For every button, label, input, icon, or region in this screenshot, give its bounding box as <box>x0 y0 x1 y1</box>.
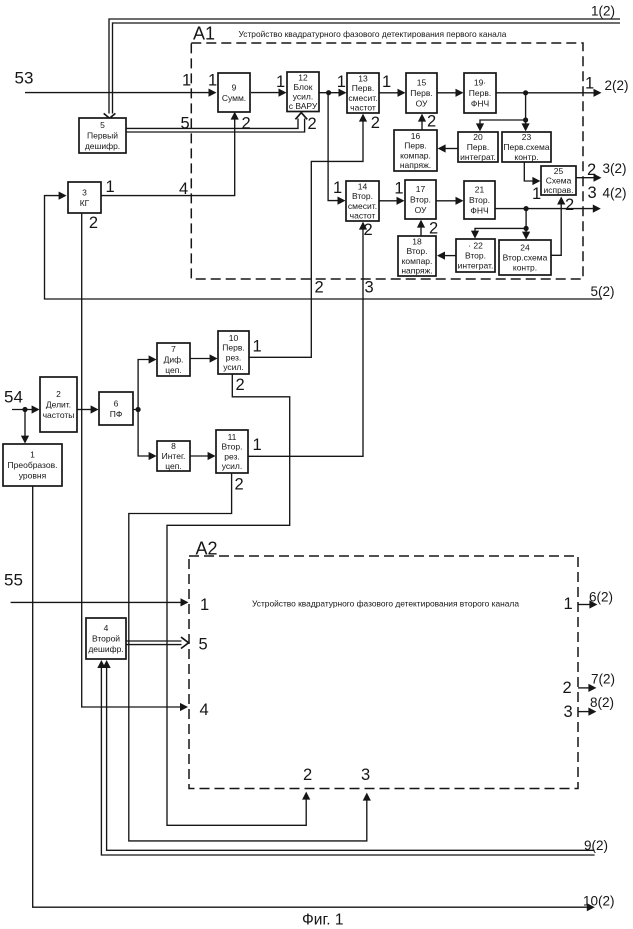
svg-text:КГ: КГ <box>80 198 90 208</box>
svg-text:5: 5 <box>100 120 105 130</box>
svg-text:54: 54 <box>4 388 23 407</box>
block 17 second op-amp <box>405 180 436 219</box>
wire 7 to 10 <box>190 354 218 362</box>
label 1(2) <box>591 4 615 19</box>
svg-text:Фиг. 1: Фиг. 1 <box>302 912 343 929</box>
wire 2 to 6 <box>77 405 99 413</box>
block 23 first control circuit <box>502 132 551 162</box>
pin 1 outside A1 left <box>182 72 191 90</box>
pin 1 output of amplifier 11 <box>253 436 262 454</box>
wire 8 to 11 <box>190 452 216 460</box>
pin 5 outside A1 left <box>181 115 190 133</box>
svg-text:Сумм.: Сумм. <box>222 93 246 103</box>
svg-text:1: 1 <box>208 72 217 90</box>
wire A2 output 3 to 8(2) <box>578 708 596 716</box>
pin 4 A2 left input <box>200 701 209 719</box>
svg-text:3: 3 <box>365 279 374 297</box>
svg-text:2: 2 <box>235 476 244 494</box>
svg-text:рез.: рез. <box>224 451 240 461</box>
svg-text:25: 25 <box>554 166 564 176</box>
svg-text:1: 1 <box>253 338 262 356</box>
svg-text:21: 21 <box>475 185 485 195</box>
svg-text:55: 55 <box>4 571 23 590</box>
svg-text:1: 1 <box>200 596 209 614</box>
svg-text:2: 2 <box>364 221 373 239</box>
svg-text:Втор.: Втор. <box>410 195 431 205</box>
pin 1 input of mixer 13 <box>337 73 346 91</box>
svg-text:интеграт.: интеграт. <box>458 261 494 271</box>
svg-text:2: 2 <box>429 220 438 238</box>
block 21 second low-pass filter <box>464 181 495 219</box>
wire 10 output 2 to A2 bottom input 2 <box>167 374 310 825</box>
wire output 1(2) feedback loop into decoder 5 (double line, hollow arrow) <box>104 19 620 118</box>
svg-text:усил.: усил. <box>222 461 242 471</box>
svg-text:2: 2 <box>427 113 436 131</box>
svg-text:1: 1 <box>585 75 594 93</box>
pin 1 A2 right output <box>564 595 573 613</box>
wire oscillator 3 output 2 to A2 input 4 <box>82 213 188 711</box>
pin 2 A2 right output <box>563 679 572 697</box>
svg-text:9(2): 9(2) <box>584 838 608 853</box>
block 12 amplifier with VARU <box>287 72 319 112</box>
label 9(2) <box>584 838 608 853</box>
wire A2 output 2 to 7(2) <box>578 684 596 692</box>
pin 1 input of op-amp 15 <box>382 73 391 91</box>
pin 3 A2 bottom input <box>361 766 370 784</box>
svg-text:14: 14 <box>358 182 368 192</box>
svg-text:10: 10 <box>229 333 239 343</box>
pin 2 input of mixer 13 <box>371 114 380 132</box>
svg-text:2: 2 <box>563 679 572 697</box>
pin 2 input of summer 9 <box>242 115 251 133</box>
svg-text:3: 3 <box>564 703 573 721</box>
label 7(2) <box>591 672 615 687</box>
svg-text:компар.: компар. <box>400 150 431 160</box>
wire 17 to 21 <box>436 197 464 205</box>
block 10 first resonant amplifier <box>218 331 249 374</box>
pin 3 A1 bottom input <box>365 279 374 297</box>
svg-text:уровня: уровня <box>19 471 47 481</box>
wire 20 to 16 <box>438 144 458 152</box>
svg-text:2: 2 <box>242 115 251 133</box>
svg-text:2: 2 <box>236 376 245 394</box>
label 8(2) <box>590 695 614 710</box>
svg-text:2: 2 <box>587 161 596 179</box>
svg-text:1: 1 <box>564 595 573 613</box>
wire 13 to 15 <box>378 89 406 97</box>
wire input 55 to A2 input 1 <box>11 598 189 606</box>
svg-text:24: 24 <box>520 242 530 252</box>
svg-text:Втор.: Втор. <box>221 442 242 452</box>
block 25 correction circuit <box>541 166 576 195</box>
pin 5 A2 left input <box>199 636 208 654</box>
svg-text:1: 1 <box>532 185 541 203</box>
svg-text:6: 6 <box>114 398 119 408</box>
svg-text:17: 17 <box>416 184 426 194</box>
svg-text:усил.: усил. <box>223 362 243 372</box>
pin 1 input of circuit 25 <box>532 185 541 203</box>
block 24 second control circuit <box>499 240 551 275</box>
pin 2 input of mixer 14 <box>364 221 373 239</box>
svg-text:Втор.: Втор. <box>469 195 490 205</box>
svg-text:с ВАРУ: с ВАРУ <box>289 101 318 111</box>
svg-text:11: 11 <box>228 432 237 442</box>
pin 1 input of op-amp 17 <box>394 180 403 198</box>
pin 2 input of block 12 <box>308 115 317 133</box>
svg-text:3: 3 <box>361 766 370 784</box>
svg-text:4: 4 <box>104 623 109 633</box>
svg-text:ФНЧ: ФНЧ <box>471 99 489 109</box>
block 20 first integrator <box>458 132 498 162</box>
svg-text:13: 13 <box>358 74 368 84</box>
wire 18 up to 17 input 2 <box>417 220 425 236</box>
pin 1 output of oscillator 3 <box>106 178 115 196</box>
wire 5(2) feedback into oscillator 3 <box>45 192 603 300</box>
svg-text:10(2): 10(2) <box>583 894 615 909</box>
wire junction after 6 to 7 and 8 <box>133 355 157 460</box>
block 6 bandpass filter PF <box>99 392 133 425</box>
wire 11 output 1 to mixer 14 input 2 <box>248 222 367 457</box>
svg-text:1: 1 <box>394 180 403 198</box>
svg-text:цеп.: цеп. <box>165 461 181 471</box>
svg-text:интеграт.: интеграт. <box>460 152 496 162</box>
svg-text:1: 1 <box>382 73 391 91</box>
svg-text:1: 1 <box>276 73 285 91</box>
wire 15 to 19 <box>437 89 464 97</box>
svg-text:Перв.: Перв. <box>222 343 244 353</box>
svg-text:1: 1 <box>30 450 35 460</box>
wire branch from node after 21 down to 22 and 24 <box>471 209 530 240</box>
pin 2 input of op-amp 17 <box>429 220 438 238</box>
block 13 first frequency mixer <box>347 73 379 113</box>
label A1 <box>193 24 215 44</box>
svg-text:18: 18 <box>412 237 422 247</box>
svg-text:смесит.: смесит. <box>348 93 377 103</box>
svg-text:5: 5 <box>181 115 190 133</box>
block 3 oscillator KG <box>68 182 101 213</box>
svg-text:· 22: · 22 <box>468 240 483 250</box>
label 55 <box>4 571 23 590</box>
pin 3 A2 right output <box>564 703 573 721</box>
svg-text:Диф.: Диф. <box>164 355 184 365</box>
svg-text:2: 2 <box>89 214 98 232</box>
svg-text:15: 15 <box>417 78 427 88</box>
svg-text:5: 5 <box>199 636 208 654</box>
block 7 differentiating circuit <box>157 343 190 376</box>
block 16 first voltage comparator <box>394 130 437 171</box>
svg-text:частоты: частоты <box>43 410 75 420</box>
wire 24 to 25 input 2 <box>551 197 565 256</box>
svg-text:напряж.: напряж. <box>400 160 431 170</box>
svg-text:1: 1 <box>106 178 115 196</box>
svg-text:ПФ: ПФ <box>110 409 123 419</box>
wire branch from node after 19 down to 20 and 23 <box>476 93 530 132</box>
svg-text:контр.: контр. <box>513 263 537 273</box>
label A2 <box>196 539 218 559</box>
svg-text:Втор.: Втор. <box>406 246 427 256</box>
pin 2 A2 bottom input <box>303 766 312 784</box>
pin 1 A2 left input <box>200 596 209 614</box>
wire 14 to 17 <box>379 197 405 205</box>
svg-text:дешифр.: дешифр. <box>88 644 123 654</box>
svg-text:1: 1 <box>333 179 342 197</box>
label 10(2) <box>583 894 615 909</box>
svg-text:дешифр.: дешифр. <box>85 141 120 151</box>
svg-text:23: 23 <box>522 132 532 142</box>
label 5(2) <box>591 284 615 299</box>
svg-text:1: 1 <box>182 72 191 90</box>
svg-text:Перв.схема: Перв.схема <box>503 142 549 152</box>
svg-text:Перв.: Перв. <box>467 142 489 152</box>
svg-text:ОУ: ОУ <box>416 99 428 109</box>
svg-text:A1: A1 <box>193 24 215 44</box>
pin 2 input of circuit 25 <box>565 196 574 214</box>
block 11 second resonant amplifier <box>216 430 248 473</box>
wire 16 up to 15 input 2 <box>418 114 426 130</box>
svg-text:1: 1 <box>253 436 262 454</box>
pin 2 output of amplifier 11 <box>235 476 244 494</box>
svg-text:7: 7 <box>171 344 176 354</box>
svg-text:Устройство квадратурного фазов: Устройство квадратурного фазового детект… <box>252 598 519 608</box>
svg-text:3: 3 <box>82 187 87 197</box>
wire 19 to A1 output 1 / 2(2) <box>496 89 602 97</box>
svg-text:6(2): 6(2) <box>589 590 613 605</box>
double wire 9(2) to decoder 4 bottom inputs <box>97 660 594 855</box>
double wire decoder 5 to 12 input 2 (hollow arrow) <box>126 113 307 132</box>
wire 11 output 2 to A2 bottom input 3 <box>129 473 371 841</box>
svg-text:Втор.: Втор. <box>465 251 486 261</box>
svg-text:Перв.: Перв. <box>404 141 426 151</box>
block 4 second decoder <box>86 618 126 659</box>
pin 3 output of circuit 25 <box>588 184 597 202</box>
block 9 summer <box>218 73 250 112</box>
caption Fig. 1 <box>302 912 343 929</box>
title of A1 <box>239 29 507 39</box>
svg-text:7(2): 7(2) <box>591 672 615 687</box>
svg-text:2: 2 <box>565 196 574 214</box>
dashed boundary A2 (quadrature phase detector of second channel) <box>189 556 578 789</box>
svg-text:4: 4 <box>200 701 209 719</box>
pin 1 input of summer 9 <box>208 72 217 90</box>
svg-text:Перв.: Перв. <box>410 88 432 98</box>
svg-text:3: 3 <box>588 184 597 202</box>
svg-text:исправ.: исправ. <box>544 185 574 195</box>
svg-text:цеп.: цеп. <box>165 365 181 375</box>
svg-text:8: 8 <box>171 441 176 451</box>
svg-text:20: 20 <box>473 132 483 142</box>
label 3(2) <box>603 161 627 176</box>
label 6(2) <box>589 590 613 605</box>
svg-text:16: 16 <box>411 131 421 141</box>
svg-text:53: 53 <box>15 69 34 88</box>
svg-text:A2: A2 <box>196 539 218 559</box>
block 2 frequency divider <box>40 377 77 432</box>
svg-text:Второй: Второй <box>92 634 120 644</box>
block 22 second integrator <box>456 239 495 272</box>
svg-text:2(2): 2(2) <box>605 78 629 93</box>
pin 4 outside A1 left <box>179 180 188 198</box>
title of A2 <box>252 598 519 608</box>
svg-text:смесит.: смесит. <box>348 201 377 211</box>
svg-text:ФНЧ: ФНЧ <box>470 206 488 216</box>
label 2(2) <box>605 78 629 93</box>
pin 2 output of oscillator 3 <box>89 214 98 232</box>
wire 25 to output 3(2) <box>576 174 602 182</box>
wire input 53 to summer 9 <box>25 89 217 97</box>
wire 21 to A1 row-2 output <box>495 205 601 213</box>
wire 23 to 25 input 1 <box>524 162 540 185</box>
svg-text:8(2): 8(2) <box>590 695 614 710</box>
wire input 54 to divider 2 and converter 1 <box>12 405 40 443</box>
svg-text:2: 2 <box>315 279 324 297</box>
wire 12 to 13 with junction <box>319 89 347 97</box>
pin 1 A1 output row1 <box>585 75 594 93</box>
dashed boundary A1 (quadrature phase detector of first channel) <box>191 43 583 279</box>
pin 1 output of amplifier 10 <box>253 338 262 356</box>
pin 1 input of block 12 <box>276 73 285 91</box>
wire 9 to 12 <box>251 89 287 97</box>
pin 2 A1 bottom input <box>315 279 324 297</box>
wire 22 to 18 <box>437 252 456 260</box>
block 14 second frequency mixer <box>346 181 379 221</box>
svg-text:рез.: рез. <box>226 352 242 362</box>
svg-text:Втор.схема: Втор.схема <box>503 253 548 263</box>
svg-text:Схема: Схема <box>546 176 572 186</box>
svg-text:19·: 19· <box>474 78 486 88</box>
svg-text:Перв.: Перв. <box>469 88 491 98</box>
svg-text:контр.: контр. <box>514 152 538 162</box>
wire A2 output 1 to 6(2) <box>578 600 597 608</box>
label 54 <box>4 388 23 407</box>
block 8 integrating circuit <box>157 441 190 471</box>
block 19 first low-pass filter <box>464 73 496 113</box>
wire 10 output 1 to mixer 13 input 2 <box>249 114 367 358</box>
svg-text:компар.: компар. <box>402 256 433 266</box>
pin 2 output of circuit 25 <box>587 161 596 179</box>
svg-text:1: 1 <box>337 73 346 91</box>
wire oscillator 3 output 1 to summer 9 input 2 <box>101 112 239 196</box>
block 1 level converter <box>3 444 62 486</box>
svg-text:Первый: Первый <box>87 131 118 141</box>
block 5 first decoder <box>79 118 126 153</box>
svg-text:4: 4 <box>179 180 188 198</box>
pin 1 input of mixer 14 <box>333 179 342 197</box>
svg-text:Устройство квадратурного фазов: Устройство квадратурного фазового детект… <box>239 29 507 39</box>
wire converter 1 output to 10(2) <box>33 486 595 911</box>
svg-text:2: 2 <box>308 115 317 133</box>
svg-text:Перв.: Перв. <box>352 83 374 93</box>
svg-text:Втор.: Втор. <box>352 191 373 201</box>
svg-text:2: 2 <box>56 389 61 399</box>
svg-text:2: 2 <box>303 766 312 784</box>
svg-text:3(2): 3(2) <box>603 161 627 176</box>
svg-text:5(2): 5(2) <box>591 284 615 299</box>
pin 2 input of op-amp 15 <box>427 113 436 131</box>
svg-text:частот: частот <box>350 102 376 112</box>
svg-text:напряж.: напряж. <box>401 265 432 275</box>
block 15 first op-amp <box>406 73 437 113</box>
block 18 second voltage comparator <box>398 236 436 276</box>
svg-text:2: 2 <box>371 114 380 132</box>
svg-text:1(2): 1(2) <box>591 4 615 19</box>
label 53 <box>15 69 34 88</box>
svg-text:ОУ: ОУ <box>415 205 427 215</box>
wire junction after 12 down to mixer 14 input 1 <box>328 93 345 205</box>
pin 2 output of amplifier 10 <box>236 376 245 394</box>
double wire decoder 4 to A2 input 5 (hollow arrow) <box>126 637 189 648</box>
svg-text:4(2): 4(2) <box>603 186 627 201</box>
svg-text:Делит.: Делит. <box>46 400 71 410</box>
svg-text:9: 9 <box>232 82 237 92</box>
label 4(2) <box>603 186 627 201</box>
svg-text:Интег.: Интег. <box>162 451 186 461</box>
svg-text:частот: частот <box>350 210 376 220</box>
svg-text:Преобразов.: Преобразов. <box>8 460 58 470</box>
